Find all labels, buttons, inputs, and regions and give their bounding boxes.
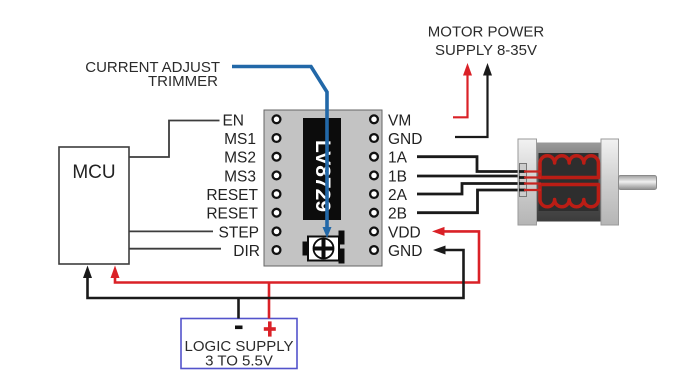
wire EN (MCU to EN pin): [129, 121, 220, 158]
label CURRENT ADJUST TRIMMER: [85, 59, 220, 90]
motor lead wire ends (black over connector): [519, 172, 526, 191]
svg-text:2B: 2B: [388, 206, 407, 223]
svg-text:1A: 1A: [388, 150, 408, 167]
svg-text:GND: GND: [388, 131, 422, 148]
wire 2A to motor: [417, 184, 525, 195]
right pin labels: [388, 112, 422, 260]
stepper motor M1: [518, 139, 657, 225]
chip LV8729: [303, 118, 341, 220]
svg-text:3 TO 5.5V: 3 TO 5.5V: [205, 353, 273, 370]
svg-text:VM: VM: [388, 112, 411, 129]
right end cap: [601, 139, 619, 225]
motor frame body: [537, 143, 602, 222]
lower coil: [540, 185, 598, 207]
wire STEP (MCU to STEP pin): [129, 230, 213, 232]
svg-text:MS2: MS2: [224, 150, 256, 167]
svg-text:STEP: STEP: [219, 224, 259, 241]
svg-text:TRIMMER: TRIMMER: [148, 73, 218, 90]
svg-text:VDD: VDD: [388, 224, 421, 241]
wire 1B to motor: [417, 175, 525, 178]
left end cap: [518, 139, 537, 225]
svg-text:MS3: MS3: [224, 168, 256, 185]
svg-text:MCU: MCU: [72, 162, 115, 183]
svg-text:GND: GND: [388, 243, 422, 260]
upper coil: [540, 156, 598, 178]
MCU U1: [59, 147, 129, 264]
blue pointer to trimmer: [232, 67, 332, 239]
svg-text:SUPPLY 8-35V: SUPPLY 8-35V: [435, 42, 537, 59]
trimmer RV1 (current adjust potentiometer): [303, 231, 345, 264]
svg-text:MOTOR POWER: MOTOR POWER: [428, 24, 545, 41]
motor lead connector: [520, 164, 527, 197]
label MOTOR POWER SUPPLY 8-35V: [428, 24, 545, 60]
wire VDD red rail (logic + to VDD and MCU): [111, 227, 480, 319]
left pin header (8 pins): [273, 115, 281, 254]
svg-text:LV8729: LV8729: [311, 140, 334, 212]
driver module board: [264, 110, 382, 266]
wire GND black rail (logic - to GND and MCU): [83, 246, 464, 319]
shaft: [619, 176, 657, 190]
svg-text:RESET: RESET: [206, 187, 258, 204]
svg-text:2A: 2A: [388, 187, 408, 204]
wire 2B to motor: [417, 190, 525, 213]
logic supply PS1: [181, 319, 297, 370]
svg-text:EN: EN: [222, 112, 244, 129]
right pin header (8 pins): [370, 115, 378, 254]
svg-text:DIR: DIR: [233, 243, 260, 260]
motor window: [539, 153, 599, 211]
wire GND to motor power supply (black, arrow up): [455, 63, 492, 137]
left pin labels: [206, 112, 260, 260]
wire VM to motor power supply (red, arrow up): [453, 63, 472, 117]
wire 1A to motor: [417, 157, 525, 172]
svg-text:MS1: MS1: [224, 131, 256, 148]
svg-text:1B: 1B: [388, 168, 407, 185]
motor red lead wires: [524, 172, 541, 191]
svg-text:RESET: RESET: [206, 206, 258, 223]
wire DIR (MCU to DIR pin): [129, 248, 221, 250]
